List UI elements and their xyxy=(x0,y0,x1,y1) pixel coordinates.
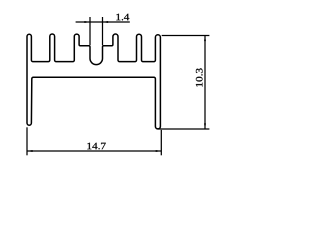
heatsink extrusion profile outline xyxy=(27,34,160,129)
left extension line xyxy=(26,127,28,155)
arrow pointing right, tip at x=90 xyxy=(84,21,90,23)
dim line xyxy=(204,36,206,130)
extension line right xyxy=(102,17,104,45)
arrow pointing left, tip at x=102.5 xyxy=(103,21,109,23)
label 14.7 xyxy=(87,143,105,150)
bottom extension line xyxy=(158,128,210,130)
label 10.3 (rotated) xyxy=(196,68,203,86)
top extension line xyxy=(162,35,210,37)
arrow pointing up, tip at y=35.6 xyxy=(204,36,206,42)
label 1.4 xyxy=(116,14,129,21)
arrow pointing left, tip at x=27 xyxy=(27,150,33,152)
dimension 14.7 (bottom) xyxy=(27,127,161,155)
dim line xyxy=(76,21,130,23)
extension line left (slot wall extended) xyxy=(89,17,91,45)
right extension line xyxy=(160,130,162,155)
dimension 1.4 (top) xyxy=(76,17,130,45)
dimension 10.3 (right) xyxy=(158,36,210,130)
arrow pointing right, tip at x=161.3 xyxy=(156,150,162,152)
arrow pointing down, tip at y=128.8 xyxy=(204,123,206,129)
dim line xyxy=(27,150,161,152)
